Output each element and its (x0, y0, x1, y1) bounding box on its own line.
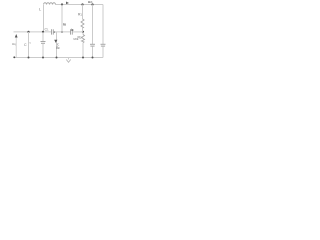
current arrow BF iB (54, 40, 57, 43)
wire mid horizontal right of cap (54, 31, 71, 33)
svg-text:C1: C1 (45, 28, 50, 32)
capacitor C1 (series, horizontal) (45, 28, 56, 35)
svg-text:R2: R2 (78, 36, 82, 40)
svg-text:uq: uq (12, 42, 16, 46)
svg-text:iE: iE (71, 28, 74, 32)
capacitor C2 (series, horizontal) (71, 28, 74, 35)
svg-text:BF: BF (56, 46, 60, 50)
wire collector drop x62 (61, 5, 63, 32)
svg-text:ur1: ur1 (88, 0, 93, 4)
svg-text:iB: iB (63, 22, 66, 26)
wire base drop / dependent source branch (56, 32, 58, 58)
wire branch x92.5 with capacitor (90, 5, 95, 58)
node junction mid divider (82, 31, 84, 33)
wire top rail (56, 4, 104, 6)
ground (66, 58, 70, 63)
node junction mid base (61, 31, 63, 33)
resistor R1 (78, 5, 84, 32)
wire mid to divider (73, 31, 83, 33)
inductor L (39, 3, 56, 12)
wire mid horizontal (14, 31, 52, 33)
source arrow iq (12, 34, 18, 58)
current arrow iL on top rail (66, 2, 69, 5)
wire branch x28.5 (28, 32, 30, 58)
node junction bottom terminals (13, 56, 15, 58)
resistor R2 (78, 32, 85, 58)
node junction top 2 (81, 3, 83, 5)
svg-text:R1: R1 (78, 13, 82, 17)
capacitor C3 on L-branch (41, 32, 46, 58)
wire bottom rail (15, 57, 104, 59)
wire left branch from L (43, 5, 45, 32)
node junction top 3 (91, 3, 93, 5)
node junction mid L-branch (42, 31, 44, 33)
node junction top 1 (61, 3, 63, 5)
node junction mid left (27, 31, 29, 33)
wire branch x103 with capacitor (101, 5, 106, 58)
svg-text:C: C (24, 43, 27, 47)
